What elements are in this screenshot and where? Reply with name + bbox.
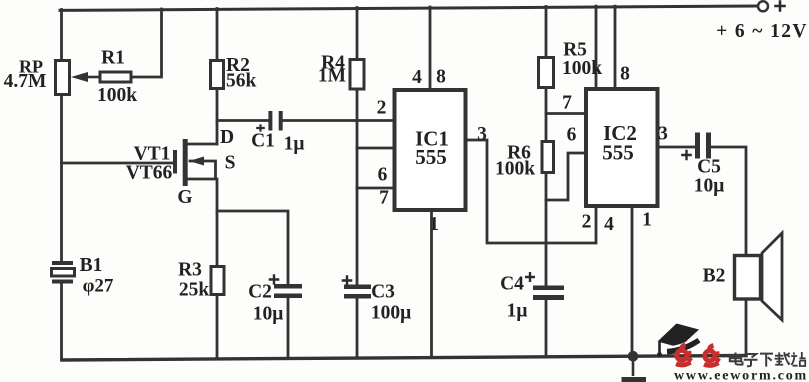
wire IC2 pin 1 to ground rail xyxy=(631,208,634,356)
svg-text:10μ: 10μ xyxy=(253,304,284,325)
watermark logo graduation cap xyxy=(657,324,699,357)
svg-text:www.eeworm.com: www.eeworm.com xyxy=(674,369,808,382)
wire C5 to speaker xyxy=(712,147,746,254)
wire R5 R6 column xyxy=(545,7,548,357)
transistor VT1 xyxy=(173,139,204,186)
svg-text:2: 2 xyxy=(582,212,592,233)
power terminal xyxy=(758,0,786,12)
wire left column RP to B1 to rail xyxy=(60,10,63,360)
svg-text:4: 4 xyxy=(412,67,422,88)
svg-text:1μ: 1μ xyxy=(284,134,305,155)
svg-text:φ27: φ27 xyxy=(83,276,114,297)
watermark text dian xyxy=(730,353,743,365)
svg-text:VT1: VT1 xyxy=(134,144,171,165)
wire drain lead xyxy=(188,143,218,146)
svg-text:7: 7 xyxy=(562,93,572,114)
wire top supply rail xyxy=(60,6,758,10)
wire IC2 pin 7 xyxy=(546,112,584,115)
svg-text:B1: B1 xyxy=(80,255,103,276)
wire speaker bottom lead xyxy=(745,301,748,356)
wire C1 branch to IC1 pin 2 xyxy=(217,119,393,122)
resistor R3 xyxy=(211,267,224,295)
svg-text:VT66: VT66 xyxy=(126,163,173,184)
svg-text:4.7M: 4.7M xyxy=(4,71,47,92)
wire IC1 pins 4 8 from rail xyxy=(429,7,432,88)
wire IC1 pin 1 to ground rail xyxy=(430,212,433,358)
svg-text:100μ: 100μ xyxy=(371,303,411,324)
capacitor C2 xyxy=(269,274,302,298)
svg-text:25k: 25k xyxy=(179,280,210,301)
svg-text:C1: C1 xyxy=(251,131,275,152)
svg-text:6: 6 xyxy=(567,125,577,146)
wire R4 column from rail through stubs to C3 xyxy=(356,8,359,359)
wire bottom ground rail xyxy=(62,356,746,361)
svg-text:+ 6 ~ 12V: + 6 ~ 12V xyxy=(716,21,808,42)
wire IC1 pin 7 stub xyxy=(357,187,393,190)
svg-text:1M: 1M xyxy=(318,66,346,87)
speaker B2 xyxy=(735,233,783,320)
svg-text:C4: C4 xyxy=(500,274,524,295)
potentiometer RP xyxy=(56,61,70,95)
wire source lead and down to R3 xyxy=(188,161,218,359)
wire R2 column from rail to drain lead xyxy=(216,9,219,145)
wire C2 branch xyxy=(217,211,288,359)
watermark chong glyph 1 xyxy=(676,345,692,365)
capacitor C3 xyxy=(342,275,371,298)
svg-text:4: 4 xyxy=(604,214,614,235)
svg-text:1: 1 xyxy=(642,210,652,231)
IC IC2 555 timer xyxy=(586,89,658,206)
watermark text zi xyxy=(744,354,758,366)
wire IC1 pin 6 stub xyxy=(357,147,393,150)
piezo element B1 xyxy=(52,261,75,284)
svg-text:S: S xyxy=(225,153,236,174)
svg-text:D: D xyxy=(220,127,234,148)
resistor R1 xyxy=(71,72,131,82)
svg-text:100k: 100k xyxy=(562,58,602,79)
watermark text xia xyxy=(760,354,773,367)
wire IC2 pin 4 column from rail xyxy=(595,6,598,87)
wire gate lead xyxy=(62,162,174,165)
resistor R6 xyxy=(542,142,554,173)
svg-text:10μ: 10μ xyxy=(694,176,725,197)
svg-text:B2: B2 xyxy=(703,266,726,287)
IC IC1 555 timer xyxy=(395,90,466,210)
svg-text:G: G xyxy=(177,187,192,208)
svg-text:C2: C2 xyxy=(248,282,272,303)
svg-text:1: 1 xyxy=(429,214,439,235)
svg-text:R3: R3 xyxy=(178,260,202,281)
svg-text:3: 3 xyxy=(477,124,487,145)
node junction dot xyxy=(628,351,639,362)
resistor R2 xyxy=(211,61,224,89)
svg-text:C5: C5 xyxy=(697,157,721,178)
svg-text:555: 555 xyxy=(415,145,447,169)
wire IC1 pin 3 to IC2 pins 2 4 xyxy=(468,140,597,243)
svg-text:56k: 56k xyxy=(226,71,257,92)
svg-text:6: 6 xyxy=(378,165,388,186)
wire R1 right lead to top rail xyxy=(133,9,162,77)
svg-text:3: 3 xyxy=(658,124,668,145)
svg-text:1μ: 1μ xyxy=(507,301,528,322)
svg-text:8: 8 xyxy=(436,67,446,88)
svg-text:2: 2 xyxy=(377,98,387,119)
watermark text zai xyxy=(775,352,790,365)
svg-text:C3: C3 xyxy=(371,282,395,303)
svg-text:R1: R1 xyxy=(101,48,125,69)
svg-text:100k: 100k xyxy=(97,85,137,106)
svg-text:8: 8 xyxy=(620,64,630,85)
capacitor C1 xyxy=(256,111,283,132)
resistor R5 xyxy=(539,58,554,88)
wire IC2 pin 3 to C5 xyxy=(660,146,696,149)
svg-text:7: 7 xyxy=(379,188,389,209)
ground xyxy=(622,356,647,382)
wire IC2 pin 6 branch xyxy=(546,153,584,200)
svg-text:100k: 100k xyxy=(495,159,535,180)
capacitor C5 xyxy=(681,133,711,161)
wire IC2 pin 8 column from rail xyxy=(614,6,617,87)
capacitor C4 xyxy=(525,272,564,300)
svg-text:555: 555 xyxy=(602,141,634,165)
resistor R4 xyxy=(350,60,364,90)
watermark chong glyph 2 xyxy=(704,346,720,366)
watermark text zhan xyxy=(791,352,805,366)
